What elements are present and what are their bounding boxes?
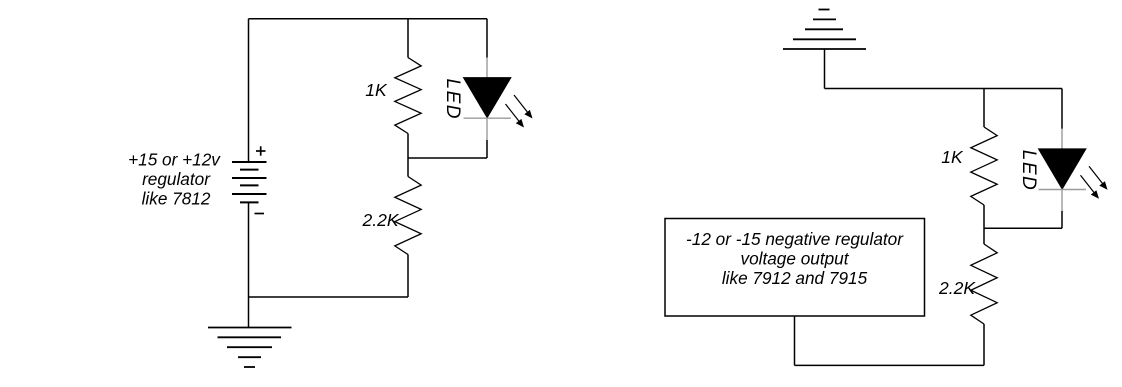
- svg-text:voltage output: voltage output: [741, 249, 850, 269]
- wire: resistor R1 top lead: [407, 19, 409, 58]
- wire: battery negative lead down to ground: [248, 202, 250, 327]
- resistor R4: [971, 244, 997, 324]
- wire: R2 bottom lead: [407, 255, 409, 298]
- LED D2 light arrows: [1081, 166, 1108, 199]
- wire: ground lead down: [824, 49, 826, 89]
- wire: right circuit top rail: [825, 88, 1063, 90]
- label: +15 or +12v regulator like 7812: [128, 150, 221, 209]
- wire: LED D1 cathode to node: [486, 140, 488, 158]
- svg-text:1K: 1K: [365, 80, 388, 100]
- wire: LED D2 cathode to node: [1061, 211, 1063, 228]
- battery BT1 plus sign: [256, 146, 266, 155]
- wire: bottom return branch to resistor chain: [249, 296, 409, 298]
- ground GND2 (inverted, right circuit): [783, 10, 866, 50]
- resistor R1: [395, 58, 421, 134]
- LED D1 light arrows: [506, 95, 533, 128]
- wire: node to LED cathode: [408, 157, 487, 159]
- wire: regulator output lead down: [794, 316, 796, 365]
- wire: battery positive lead: [248, 19, 250, 162]
- svg-text:+15 or +12v: +15 or +12v: [128, 150, 221, 170]
- resistor R2: [395, 177, 421, 255]
- wire: LED D2 anode lead from top rail: [1061, 89, 1063, 129]
- svg-text:like 7812: like 7812: [142, 189, 211, 209]
- battery BT1: [232, 162, 267, 202]
- ground GND1: [208, 328, 292, 368]
- regulator block U1 box: [665, 219, 925, 317]
- LED D2: [1039, 129, 1086, 211]
- svg-text:2.2K: 2.2K: [362, 210, 400, 230]
- wire: left circuit top rail: [249, 18, 488, 20]
- wire: bottom return rail right circuit: [795, 364, 985, 366]
- resistor R3: [971, 127, 997, 205]
- wire: resistor R3 top lead: [983, 89, 985, 128]
- wire: R3 bottom lead to node: [983, 205, 985, 228]
- LED D1: [464, 58, 511, 141]
- wire: node to LED D2 cathode: [984, 227, 1062, 229]
- svg-text:LED: LED: [442, 79, 463, 120]
- svg-text:-12 or -15 negative regulator: -12 or -15 negative regulator: [686, 229, 904, 249]
- wire: LED D1 anode lead from top rail: [486, 19, 488, 58]
- wire: R4 bottom lead: [983, 324, 985, 365]
- wire: R1 bottom lead through node to R2: [407, 134, 409, 177]
- battery BT1 minus sign: [255, 213, 265, 215]
- svg-text:LED: LED: [1018, 150, 1039, 191]
- svg-text:like 7912 and 7915: like 7912 and 7915: [722, 268, 868, 288]
- label: -12 or -15 negative regulator voltage output like 7912 and 7915: [686, 229, 904, 288]
- svg-text:regulator: regulator: [142, 169, 211, 189]
- svg-text:1K: 1K: [941, 147, 964, 167]
- svg-text:2.2K: 2.2K: [938, 278, 976, 298]
- wire: resistor R4 top lead: [983, 228, 985, 244]
